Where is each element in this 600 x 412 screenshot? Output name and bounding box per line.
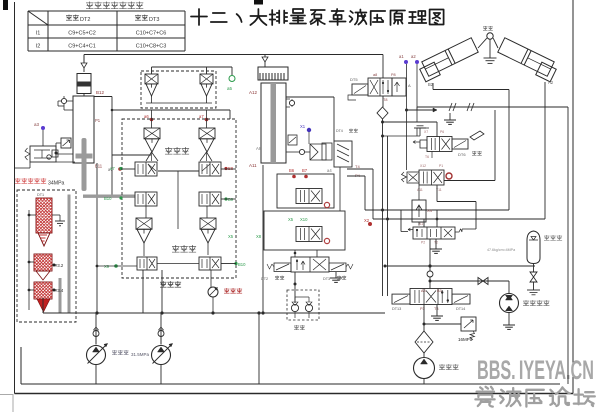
svg-text:34MPa: 34MPa [48, 181, 65, 187]
svg-text:a7: a7 [110, 166, 115, 171]
svg-text:X10: X10 [300, 217, 308, 222]
svg-text:C9+C4+C1: C9+C4+C1 [68, 44, 96, 50]
svg-text:DT4: DT4 [336, 129, 343, 133]
svg-text:DT1: DT1 [37, 193, 44, 197]
svg-text:T3: T3 [434, 307, 438, 311]
svg-text:P8: P8 [391, 73, 396, 77]
svg-text:X4: X4 [427, 208, 433, 213]
svg-text:B8: B8 [228, 166, 234, 171]
svg-text:DT2: DT2 [261, 277, 268, 281]
svg-text:A3: A3 [421, 289, 426, 293]
svg-text:X5: X5 [288, 217, 294, 222]
svg-text:A11: A11 [417, 188, 423, 192]
svg-text:A12: A12 [249, 90, 258, 95]
svg-text:C10+C8+C3: C10+C8+C3 [136, 44, 167, 50]
svg-text:31.5MPa: 31.5MPa [131, 352, 150, 357]
svg-text:DT2: DT2 [80, 17, 90, 23]
svg-text:T4: T4 [355, 164, 360, 169]
svg-text:A2: A2 [548, 80, 554, 85]
svg-text:X1: X1 [300, 124, 306, 129]
svg-text:B10: B10 [104, 196, 112, 201]
svg-text:B6: B6 [289, 168, 295, 173]
svg-text:a8: a8 [373, 73, 377, 77]
svg-text:DT6: DT6 [458, 152, 466, 157]
svg-text:a4: a4 [327, 168, 332, 173]
svg-text:X12: X12 [420, 164, 426, 168]
svg-text:C10+C7+C6: C10+C7+C6 [136, 31, 167, 37]
svg-text:X5: X5 [228, 234, 234, 239]
svg-text:B9: B9 [228, 197, 234, 202]
svg-text:a7: a7 [199, 114, 204, 119]
svg-text:47.6kg/cm=4MPa: 47.6kg/cm=4MPa [487, 248, 515, 252]
svg-text:P4: P4 [355, 173, 361, 178]
svg-text:DT14: DT14 [456, 307, 465, 311]
svg-text:I1: I1 [36, 31, 41, 37]
svg-text:P2: P2 [421, 241, 425, 245]
svg-text:a5: a5 [227, 86, 233, 91]
svg-text:C9+C5+C2: C9+C5+C2 [68, 31, 96, 37]
svg-text:#3.2: #3.2 [55, 263, 64, 268]
svg-text:B11: B11 [95, 164, 103, 169]
svg-text:BBS. IYEYA.CN: BBS. IYEYA.CN [477, 355, 594, 385]
svg-text:B7: B7 [302, 168, 308, 173]
svg-text:DT3: DT3 [149, 17, 159, 23]
svg-text:X2: X2 [364, 218, 370, 223]
svg-text:T8: T8 [383, 98, 387, 102]
svg-text:#3.4: #3.4 [55, 288, 64, 293]
svg-text:A8: A8 [256, 146, 262, 151]
svg-text:DT5: DT5 [350, 77, 358, 82]
svg-text:P1: P1 [439, 164, 443, 168]
svg-text:P6: P6 [440, 130, 444, 134]
svg-text:DT13: DT13 [392, 307, 401, 311]
svg-text:B10: B10 [238, 262, 246, 267]
svg-text:T6: T6 [425, 155, 429, 159]
svg-text:X8: X8 [256, 234, 262, 239]
svg-text:a2: a2 [411, 54, 416, 59]
svg-text:A11: A11 [249, 163, 257, 168]
svg-text:B12: B12 [96, 90, 105, 95]
svg-text:B3: B3 [437, 289, 442, 293]
svg-text:I2: I2 [36, 44, 41, 50]
svg-text:X7: X7 [424, 130, 428, 134]
svg-text:X9: X9 [104, 264, 110, 269]
svg-text:P1: P1 [95, 118, 101, 123]
svg-text:DT3: DT3 [323, 277, 330, 281]
svg-text:A1: A1 [419, 222, 423, 226]
svg-text:a3: a3 [34, 122, 40, 127]
svg-text:A: A [408, 83, 411, 88]
svg-text:a6: a6 [144, 114, 149, 119]
svg-text:a1: a1 [399, 54, 404, 59]
svg-text:16MPa: 16MPa [458, 337, 473, 342]
